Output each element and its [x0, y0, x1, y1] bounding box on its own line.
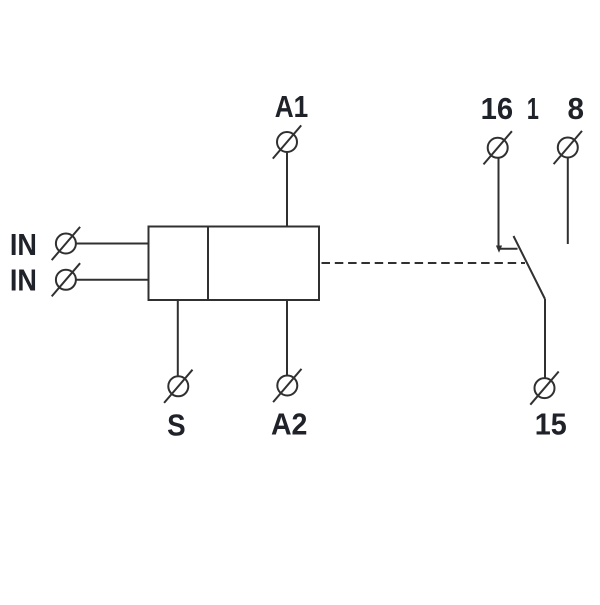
terminal IN2	[52, 263, 80, 296]
dashed actuation link	[322, 262, 526, 264]
wire 8 stub	[567, 158, 569, 245]
terminal A2	[273, 369, 301, 402]
svg-text:IN: IN	[10, 227, 37, 262]
svg-text:IN: IN	[10, 263, 37, 298]
contact arrowhead	[496, 246, 502, 253]
terminal 15	[530, 372, 558, 405]
wire A2 from box	[286, 300, 288, 376]
terminal A1	[273, 125, 301, 158]
fixed contact tick	[499, 248, 518, 250]
svg-text:8: 8	[567, 91, 584, 126]
svg-text:A1: A1	[275, 89, 309, 124]
terminal 8	[554, 131, 582, 164]
wire IN1 to box	[76, 243, 149, 245]
relay coil box K1	[149, 227, 320, 301]
svg-text:15: 15	[535, 407, 567, 442]
box divider	[207, 227, 209, 301]
terminal IN1	[52, 227, 80, 260]
svg-text:A2: A2	[271, 407, 308, 442]
svg-text:1: 1	[527, 91, 539, 126]
wire arm to 15	[544, 299, 546, 378]
switch arm SW1	[514, 236, 546, 299]
terminal S	[164, 370, 192, 403]
svg-text:S: S	[167, 407, 186, 442]
terminal 16	[484, 131, 512, 164]
wire S from box	[177, 300, 179, 376]
wire 16 to contact	[498, 158, 500, 248]
svg-text:16: 16	[481, 91, 514, 126]
wire A1 to box	[286, 152, 288, 227]
wire IN2 to box	[76, 279, 149, 281]
